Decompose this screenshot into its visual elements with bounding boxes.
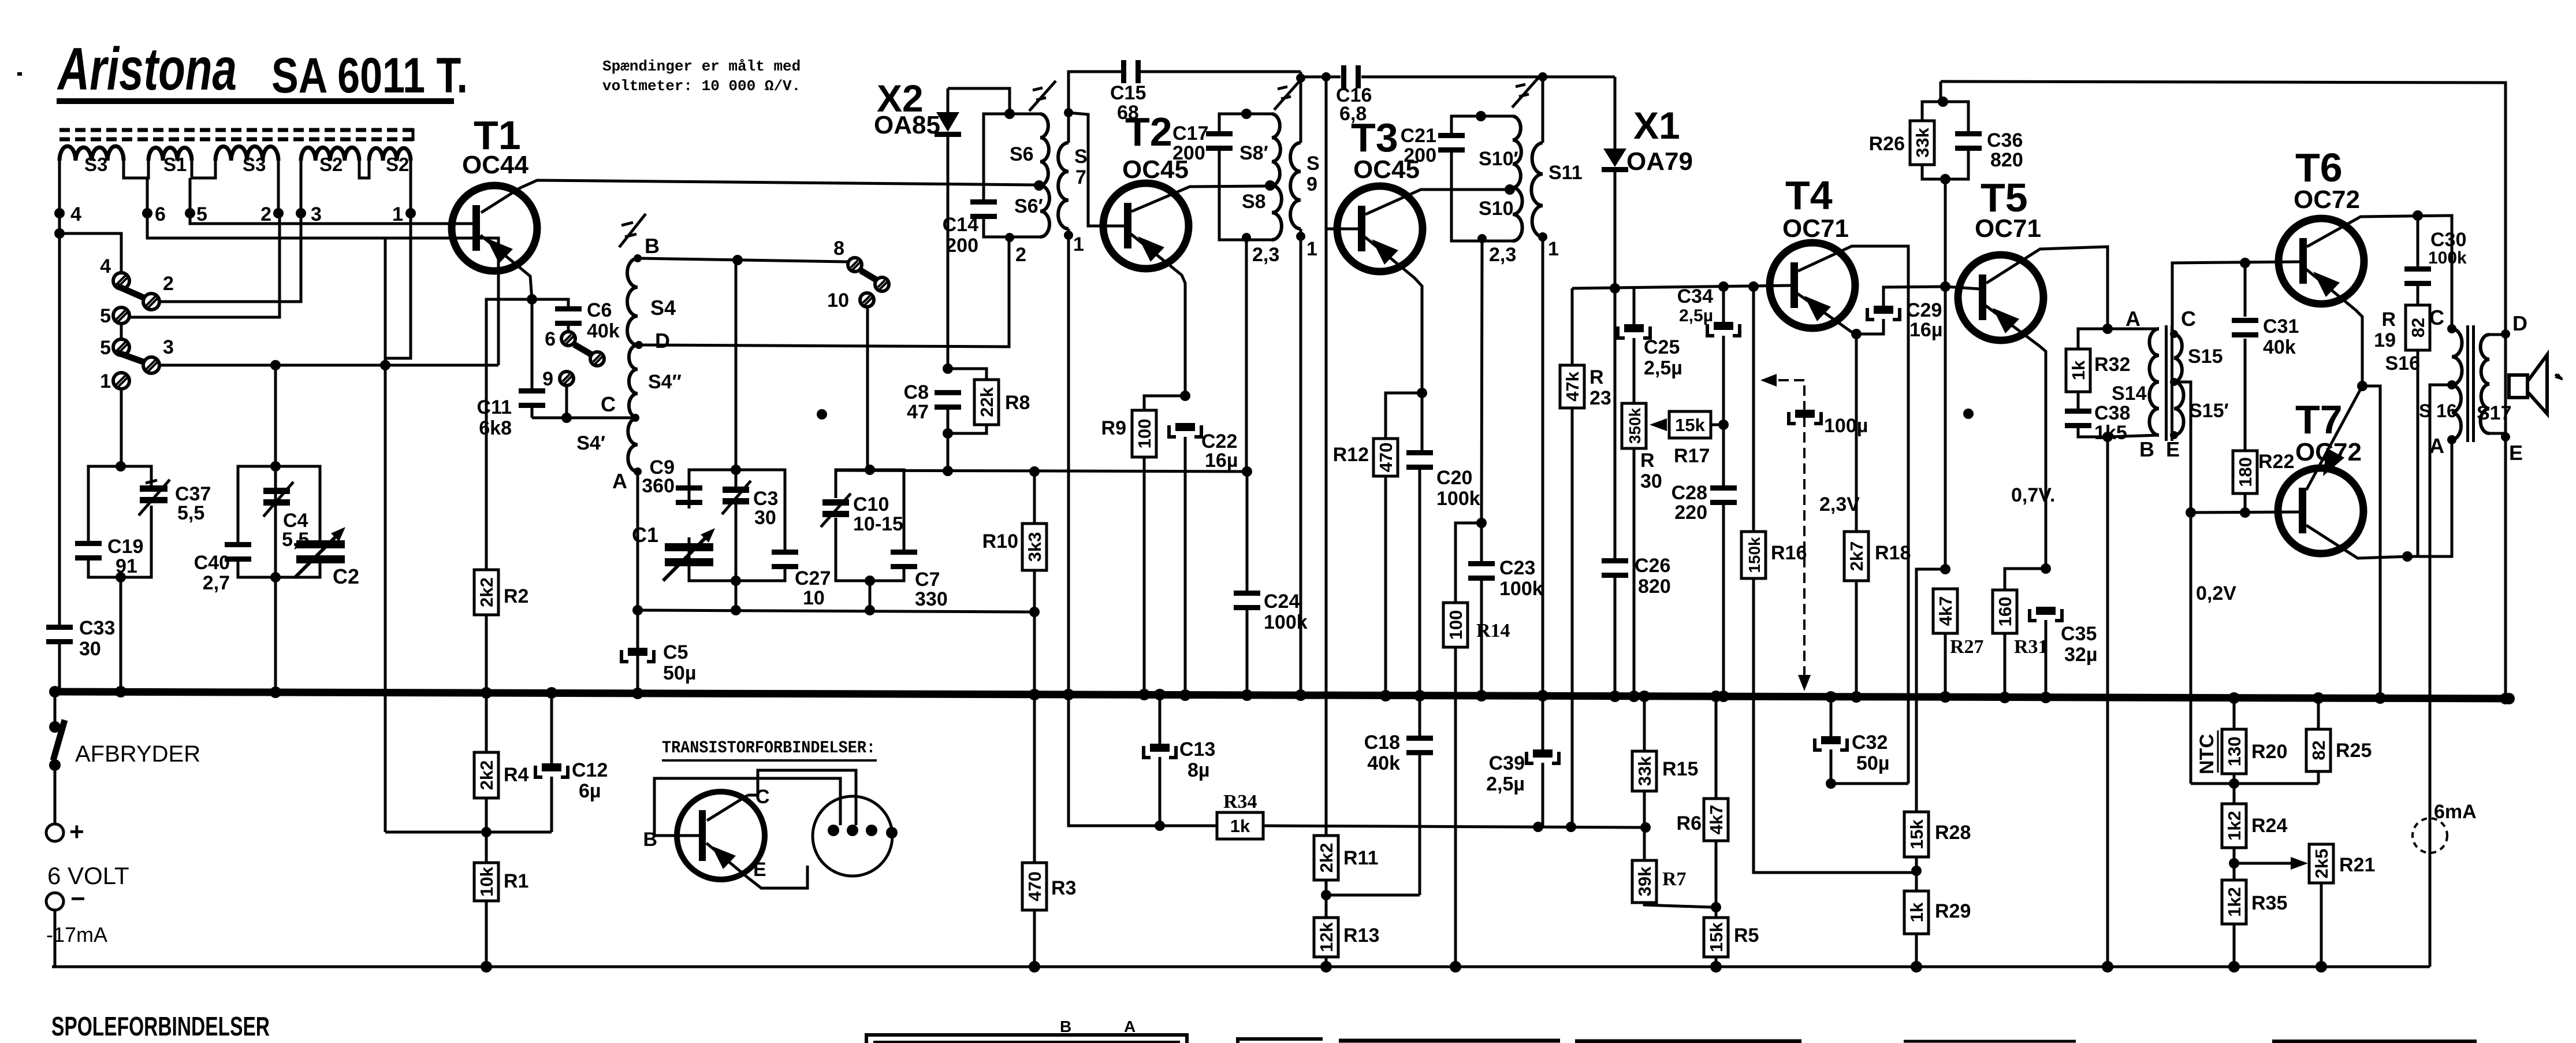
switch contact 9 [560,372,574,385]
svg-text:T4: T4 [1785,173,1833,218]
resistor R27 [1940,564,1950,574]
svg-text:1k: 1k [1907,902,1927,922]
svg-text:2k2: 2k2 [477,760,497,790]
bus junction [2503,693,2515,704]
terminal plus [46,824,64,841]
T3 collector wire [1365,190,1507,214]
svg-text:R: R [1640,450,1655,472]
svg-text:360: 360 [642,475,675,497]
svg-text:C14: C14 [943,214,978,236]
resistor R4 [485,693,488,752]
svg-text:C10: C10 [853,493,889,515]
svg-text:C1: C1 [632,523,658,547]
trafo core S16 S17 [2466,325,2469,442]
svg-text:6mA: 6mA [2434,801,2477,823]
svg-text:47: 47 [907,401,929,423]
svg-text:5: 5 [100,305,111,327]
bus junction [1414,690,1425,701]
potentiometer R21 [2309,844,2333,883]
wire T5 base node to R28 [1916,569,1945,812]
resistor R35 [2222,880,2246,924]
svg-text:1: 1 [100,370,111,392]
svg-text:C26: C26 [1635,555,1670,577]
capacitor C26 [1614,288,1617,559]
svg-text:R9: R9 [1101,417,1126,439]
resistor R15 [1643,696,1646,751]
bottom box 3 [1339,1039,1560,1043]
resistor R28 [1904,812,1929,857]
capacitor C6 [532,299,568,307]
resistor R12 [1386,393,1422,439]
svg-text:15k: 15k [1907,819,1927,849]
svg-text:E: E [753,859,766,881]
svg-text:AFBRYDER: AFBRYDER [75,741,200,767]
bottom box 4 [1575,1040,1801,1043]
svg-text:6k8: 6k8 [479,417,512,439]
svg-text:100k: 100k [1436,488,1480,510]
svg-text:R13: R13 [1343,925,1379,947]
switch AFBRYDER [54,692,57,723]
resistor R34 [1217,812,1263,839]
svg-text:R28: R28 [1935,822,1971,844]
svg-text:5,5: 5,5 [177,502,204,524]
capacitor C23 [1480,523,1483,562]
rail junction [2228,961,2240,973]
capacitor C16 on rail2 [1301,76,1341,79]
svg-text:S: S [1074,146,1088,168]
svg-text:D: D [655,329,670,352]
svg-text:9: 9 [542,368,553,390]
wire terminal4 down left edge [58,233,61,625]
trimmer mark at S4 [619,214,646,247]
svg-text:-17mA: -17mA [46,923,107,947]
rail junction [2102,961,2113,973]
stray mark top left [17,72,22,76]
switch contact 5a [113,307,129,324]
svg-text:C: C [601,392,616,416]
resistor R2 [474,570,498,615]
svg-text:6µ: 6µ [579,780,601,802]
switch contact 5b [113,339,129,355]
wire top rail right of C15 [1300,72,1302,143]
svg-text:S8′: S8′ [1239,142,1268,164]
svg-text:C7: C7 [915,569,940,591]
bus junction [1940,691,1951,703]
capacitor C28 [1710,485,1737,491]
node E [2501,432,2510,441]
trimmer capacitor C3 [723,487,749,493]
svg-text:6: 6 [545,328,556,350]
T3 base wire [1321,72,1331,81]
wire terminal1 jog [385,213,411,358]
node T1 emitter [527,294,537,305]
electrolytic C12 [550,693,553,764]
switch lever 6 [574,344,594,356]
svg-text:50µ: 50µ [1856,752,1889,774]
IF transformer S10 box [1451,116,1513,135]
box C19 C37 [88,466,121,541]
node R24 R35 [2229,858,2239,868]
svg-text:R18: R18 [1875,542,1911,564]
capacitor C36 [1943,102,1968,133]
trimmer capacitor C10 [822,499,849,506]
svg-text:A: A [612,469,627,493]
resistor R29 [1904,891,1929,934]
wire A down [636,472,639,610]
svg-text:3: 3 [311,203,322,225]
svg-text:2,3: 2,3 [1252,244,1279,266]
node T4 emitter [1851,329,1862,339]
electrolytic C5 [636,610,639,693]
svg-text:R17: R17 [1674,445,1710,467]
wire terminal6 loop [147,213,498,365]
T2 collector wire [1131,186,1267,211]
node R4 C12 [481,827,492,837]
wire contact3 row [159,364,498,367]
rail junction [2316,961,2327,973]
inset transistor symbol [677,792,765,879]
svg-text:NTC: NTC [2196,734,2218,774]
svg-text:R: R [1589,366,1604,388]
electrolytic C22 [1169,425,1201,437]
svg-text:R20: R20 [2251,741,2287,763]
svg-text:T2: T2 [1125,109,1172,154]
svg-text:S15: S15 [2188,346,2223,368]
svg-text:C39: C39 [1489,752,1525,774]
capacitor C18 [1419,696,1421,737]
bus junction [1295,689,1306,701]
svg-text:B: B [645,234,660,258]
rail junction [1450,961,1461,973]
bus junction [1628,691,1640,702]
T7 emitter wire from node [2306,386,2362,490]
svg-text:C31: C31 [2263,316,2299,337]
wire R10 down to bus [1033,612,1036,695]
coil S14 [2108,328,2159,331]
svg-text:47k: 47k [1562,371,1583,401]
svg-text:R: R [2381,309,2396,331]
svg-text:8: 8 [833,237,844,259]
terminal 1 [410,161,412,213]
svg-text:+: + [69,818,84,846]
terminal 3 [300,161,303,213]
svg-text:22k: 22k [977,387,997,417]
svg-text:−: − [70,885,85,913]
rail junction [1320,961,1332,973]
svg-text:5: 5 [100,337,111,359]
bus junction [546,687,557,699]
capacitor C24 [1246,472,1249,592]
svg-text:C13: C13 [1179,738,1215,760]
resistor R16 [1752,287,1755,532]
wire bias row [385,831,552,834]
wire detector output row [1572,285,1792,288]
svg-text:C29: C29 [1906,299,1942,321]
svg-text:C18: C18 [1364,732,1400,754]
svg-text:OC71: OC71 [1975,214,2041,243]
svg-text:40k: 40k [2263,336,2296,358]
T5 collector wire [1986,247,2108,329]
svg-text:C11: C11 [477,396,512,418]
svg-text:5: 5 [196,203,207,225]
svg-text:0,7V.: 0,7V. [2011,484,2055,506]
capacitor C31 [2244,339,2247,451]
NTC bracket [2217,730,2219,773]
capacitor C11 [531,299,534,390]
bus junction [1380,690,1391,701]
svg-text:C8: C8 [904,381,929,403]
meter circle 6mA [2413,818,2447,853]
rail junction [1911,961,1922,973]
coil S16prime [2452,385,2461,440]
svg-text:4k7: 4k7 [1935,596,1956,626]
svg-text:S8: S8 [1242,191,1266,213]
svg-text:C15: C15 [1110,82,1146,104]
variable capacitor C2 [296,540,345,548]
bus junction [1609,691,1621,702]
wire C10 box mid down [869,581,872,610]
svg-text:A: A [1124,1018,1136,1035]
svg-text:1k: 1k [1230,816,1250,836]
wire contact1 down to C19 C37 [120,388,123,466]
svg-text:50µ: 50µ [663,662,696,684]
svg-text:S10′: S10′ [1479,148,1518,170]
svg-text:R31: R31 [2014,636,2048,658]
svg-text:330: 330 [915,588,948,610]
terminal 5 [189,178,192,213]
switch contact 1 [113,373,129,389]
resistor R11 [1314,836,1338,880]
node S16 tap [2447,380,2456,389]
T3 emitter wire [1365,237,1422,393]
svg-text:Spændinger er målt med: Spændinger er målt med [602,58,801,75]
coil S15 [2174,334,2182,382]
box C40 C4 C2 [238,466,276,542]
wire supply row 816 [836,470,1247,472]
bus junction [1639,691,1650,702]
svg-text:R24: R24 [2251,815,2287,837]
svg-text:10k: 10k [477,866,497,896]
svg-text:C21: C21 [1401,125,1436,147]
svg-text:C32: C32 [1852,732,1888,754]
svg-text:6 VOLT: 6 VOLT [47,862,129,889]
wire box mid to A row [735,581,738,610]
svg-text:S: S [1306,153,1320,175]
IF transformer S6 S6-prime box [984,114,1010,201]
antenna coil S2a [301,147,359,161]
switch lever 5-3 [117,352,146,363]
T5 emitter wire [1986,306,2046,569]
svg-text:Aristona: Aristona [57,36,237,103]
svg-text:T6: T6 [2295,145,2343,190]
capacitor C30 [2417,216,2419,268]
svg-text:S2: S2 [386,154,409,175]
svg-text:470: 470 [1376,443,1396,473]
bottom box 1 [866,1035,1187,1043]
svg-text:15k: 15k [1675,415,1705,435]
capacitor C19 [75,541,102,546]
electrolytic 100u [1789,412,1821,424]
svg-text:R3: R3 [1051,877,1076,899]
svg-text:OA79: OA79 [1626,147,1693,176]
svg-text:2,3V: 2,3V [1819,493,1860,515]
svg-text:S16: S16 [2385,352,2421,374]
terminal minus [46,893,64,910]
antenna coil S2b [369,148,411,161]
wire tap to bottom rail [2430,385,2452,967]
svg-text:1: 1 [1073,233,1084,255]
svg-text:SPOLEFORBINDELSER: SPOLEFORBINDELSER [51,1011,270,1041]
svg-text:C28: C28 [1672,482,1707,504]
IF transformer S8 box [1219,114,1272,133]
svg-text:voltmeter: 10 000 Ω/V.: voltmeter: 10 000 Ω/V. [602,77,801,95]
bus junction [1537,690,1548,701]
resistor R9 [1144,396,1185,410]
resistor R23 [1571,288,1574,365]
resistor R1 [485,832,488,863]
resistor R14 [1476,518,1487,528]
trimmer mark at S10 [1512,77,1539,107]
svg-text:C: C [2181,307,2196,331]
svg-text:820: 820 [1990,149,2023,171]
svg-text:S15′: S15′ [2189,400,2229,422]
svg-text:2,7: 2,7 [203,572,230,594]
svg-text:C34: C34 [1677,285,1713,307]
speaker frame [2489,333,2506,336]
node R28 R29 [1911,866,1922,876]
node A S14 [2102,324,2113,334]
antenna rod dashed lines [59,128,413,132]
capacitor C27 [772,550,798,555]
bus junction [2040,692,2052,703]
resistor R18 [1855,334,1858,532]
T1 emitter wire [481,235,532,299]
capacitor C20 [1421,393,1424,451]
svg-text:C20: C20 [1436,467,1472,489]
resistor R19 [2406,305,2430,350]
NTC row [2191,782,2318,785]
svg-text:A: A [2125,307,2141,331]
svg-text:C25: C25 [1644,336,1680,358]
svg-text:2,5µ: 2,5µ [1644,357,1682,379]
bottom box 5 [1904,1040,2076,1043]
svg-text:R15: R15 [1662,758,1698,780]
svg-text:R32: R32 [2094,354,2130,376]
svg-text:C6: C6 [587,299,612,321]
node X1 out [1610,283,1620,294]
rail junction [1029,961,1040,973]
coil S11 [1538,72,1547,81]
bottom supply rail [52,966,2430,968]
svg-text:100µ: 100µ [1824,415,1868,437]
svg-text:82: 82 [2408,318,2428,337]
svg-text:T5: T5 [1981,175,2028,220]
electrolytic C34 [1722,287,1725,322]
svg-text:OC44: OC44 [462,151,528,179]
node R26 C36 bottom [1940,174,1950,184]
wire X2 top to S6 box [948,88,1010,114]
coil S4 with taps [627,258,638,345]
svg-text:200: 200 [1172,142,1205,164]
capacitor C17 [1206,131,1233,136]
svg-text:2k5: 2k5 [2311,849,2332,879]
svg-text:1: 1 [1306,238,1317,260]
node T6 emitter [2357,381,2367,391]
svg-text:23: 23 [1589,387,1611,409]
svg-text:R11: R11 [1343,847,1379,869]
AGC row [1069,695,1217,826]
capacitor C15 on top rail [1069,72,1124,113]
bus junction [2500,693,2511,704]
trimmer mark at S8 [1274,80,1301,110]
svg-text:19: 19 [2374,329,2396,351]
svg-text:15k: 15k [1706,922,1726,952]
svg-text:TRANSISTORFORBINDELSER:: TRANSISTORFORBINDELSER: [662,738,876,758]
svg-text:OA85: OA85 [874,111,940,139]
stray dot 1 [817,409,827,420]
transistor T3 [1337,186,1423,272]
resistor R13 [1314,918,1338,957]
svg-text:30: 30 [754,507,776,529]
svg-text:D: D [2512,311,2527,335]
bus junction [481,687,492,699]
terminal 6 [146,178,149,213]
svg-text:R5: R5 [1734,925,1759,947]
svg-text:S3: S3 [243,154,266,175]
svg-text:S4′: S4′ [576,432,605,454]
trafo core S14 S15 [2165,325,2168,441]
wire contact3 branch down to C4 box [274,365,277,466]
svg-text:B: B [1060,1018,1071,1035]
wire between 5a and 5b [120,323,123,340]
svg-text:200: 200 [945,235,978,257]
svg-text:1k2: 1k2 [2224,811,2244,841]
svg-text:C24: C24 [1264,591,1300,613]
svg-text:C23: C23 [1499,557,1535,579]
wire to T5 base [1944,179,1947,569]
antenna coil S3b [215,146,278,161]
bus junction [1710,691,1722,702]
switch contact 2 [143,294,159,310]
svg-text:C36: C36 [1987,129,2023,151]
capacitor C33 [46,625,73,630]
svg-text:2,5µ: 2,5µ [1679,306,1713,325]
svg-text:E: E [2509,441,2523,465]
node R6 R5 [1711,902,1721,912]
potentiometer R30 350k [1622,403,1646,448]
switch contact 6 [561,332,575,346]
switch contact 4 [113,273,129,289]
svg-text:1k2: 1k2 [2224,887,2244,917]
trimmer capacitor C4 [263,488,290,494]
resistor R5 [1704,918,1728,957]
node C19 C37 top [116,461,126,472]
svg-text:3: 3 [163,336,174,358]
wire S7 to T2 base [1069,113,1125,226]
inset wiring [748,770,856,825]
svg-text:40k: 40k [587,320,620,342]
svg-text:4: 4 [70,203,81,225]
svg-text:R1: R1 [504,870,528,892]
svg-text:30: 30 [79,638,101,660]
svg-text:130: 130 [2224,737,2244,767]
svg-text:16µ: 16µ [1205,450,1238,472]
svg-text:30: 30 [1640,470,1662,492]
switch lever 8 [861,270,878,281]
bus junction [1999,692,2011,703]
antenna coil S3a [59,146,124,161]
svg-text:R16: R16 [1771,542,1807,564]
